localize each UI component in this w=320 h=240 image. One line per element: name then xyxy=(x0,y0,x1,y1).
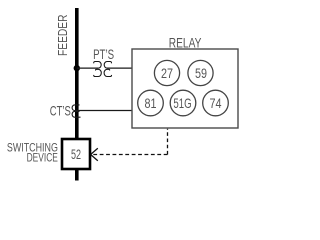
svg-text:CT’S: CT’S xyxy=(50,103,71,119)
svg-text:51G: 51G xyxy=(173,95,191,111)
svg-text:RELAY: RELAY xyxy=(169,35,202,51)
svg-text:PT’S: PT’S xyxy=(93,46,114,62)
svg-text:59: 59 xyxy=(195,65,207,81)
svg-text:FEEDER: FEEDER xyxy=(56,15,70,57)
svg-text:81: 81 xyxy=(145,95,157,111)
svg-text:27: 27 xyxy=(161,65,173,81)
svg-text:74: 74 xyxy=(210,95,222,111)
svg-text:DEVICE: DEVICE xyxy=(27,152,58,165)
svg-text:52: 52 xyxy=(71,146,81,162)
